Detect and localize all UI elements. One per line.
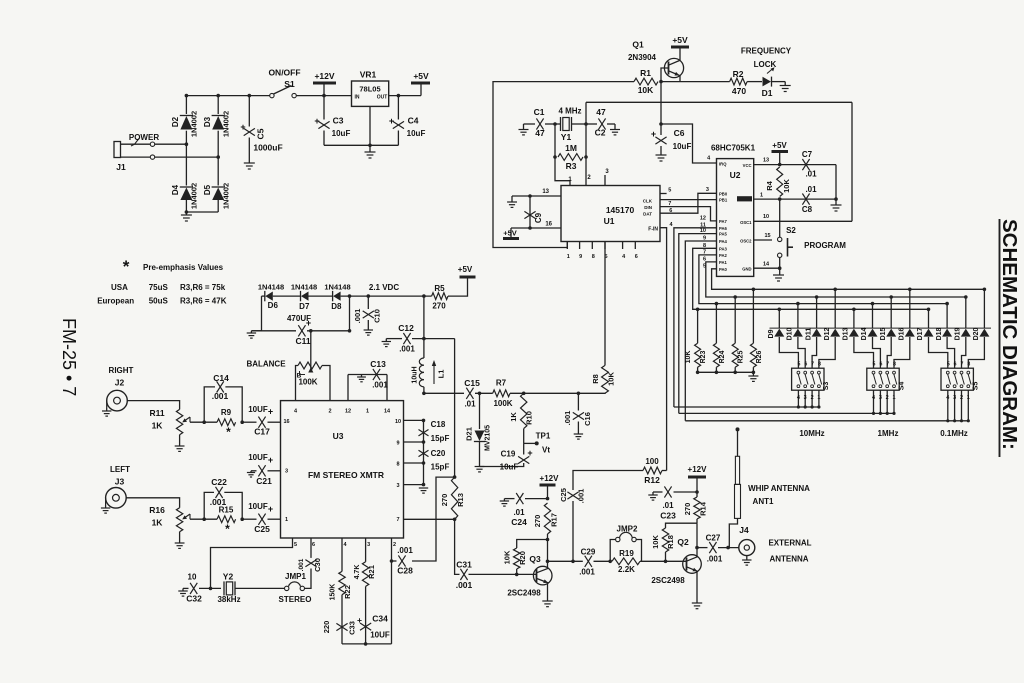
svg-text:C5: C5 xyxy=(256,128,266,139)
svg-text:PA6: PA6 xyxy=(719,226,728,231)
svg-text:1MHz: 1MHz xyxy=(878,429,899,438)
svg-text:C17: C17 xyxy=(254,427,270,437)
wire PA0 row line xyxy=(712,269,985,290)
svg-text:VR1: VR1 xyxy=(360,70,377,80)
svg-text:LOCK: LOCK xyxy=(754,60,777,69)
svg-text:.01: .01 xyxy=(513,508,525,517)
svg-text:+: + xyxy=(389,116,394,126)
DIP switch S4 xyxy=(867,361,906,416)
wire Q1 base xyxy=(661,68,669,82)
svg-text:10MHz: 10MHz xyxy=(799,429,824,438)
capacitor C34 10UF xyxy=(357,614,390,640)
svg-text:D18: D18 xyxy=(936,327,943,340)
svg-text:3: 3 xyxy=(804,395,807,401)
svg-text:R12: R12 xyxy=(644,475,660,485)
svg-text:14: 14 xyxy=(384,409,391,415)
svg-text:0.1MHz: 0.1MHz xyxy=(940,429,968,438)
svg-text:1K: 1K xyxy=(152,421,164,431)
oscillator cap column xyxy=(422,419,426,487)
svg-text:R17: R17 xyxy=(550,513,559,527)
svg-text:7: 7 xyxy=(811,362,814,368)
switch S1 ON/OFF xyxy=(268,68,300,98)
U2 VCC wire pin13 xyxy=(754,158,780,165)
svg-text:PA1: PA1 xyxy=(719,260,728,265)
svg-text:.01: .01 xyxy=(805,185,817,194)
ground R11 xyxy=(175,435,185,452)
svg-text:C10: C10 xyxy=(373,309,382,323)
svg-text:3: 3 xyxy=(285,468,288,474)
crystal Y2 38kHz xyxy=(217,572,284,605)
node C22 right xyxy=(240,517,244,521)
+5V supply at Q1 xyxy=(671,35,689,61)
svg-text:.001: .001 xyxy=(353,309,362,324)
svg-text:10K: 10K xyxy=(782,179,791,193)
U3 right pin3 wire xyxy=(404,484,424,486)
svg-text:.01: .01 xyxy=(805,170,817,179)
svg-text:16: 16 xyxy=(283,419,289,425)
svg-text:R14: R14 xyxy=(699,501,708,516)
U3 right pin8 wire xyxy=(404,462,424,464)
wire Y1 to OSC line xyxy=(585,102,587,124)
capacitor C16 .001 xyxy=(563,393,592,434)
wire D12 cathode to row xyxy=(824,288,837,341)
diode D15 xyxy=(886,329,896,337)
svg-text:C20: C20 xyxy=(431,449,446,458)
wire OSC1 riser xyxy=(851,102,853,221)
svg-text:C13: C13 xyxy=(370,359,386,369)
svg-text:PA7: PA7 xyxy=(719,219,728,224)
wire PA2 row line xyxy=(699,255,947,304)
svg-text:38kHz: 38kHz xyxy=(217,595,240,604)
diode D17 xyxy=(924,329,934,337)
svg-text:R7: R7 xyxy=(496,379,507,388)
svg-text:10UF: 10UF xyxy=(370,631,390,640)
svg-text:8: 8 xyxy=(818,362,821,368)
svg-text:U3: U3 xyxy=(333,431,344,441)
wire D15 cathode to row xyxy=(880,295,893,340)
svg-text:100: 100 xyxy=(645,457,659,466)
svg-text:D14: D14 xyxy=(861,327,868,340)
wire PA3 row line xyxy=(693,248,929,309)
node R18 xyxy=(664,560,668,564)
svg-text:1N4002: 1N4002 xyxy=(190,183,199,209)
ground C1 xyxy=(519,124,529,135)
svg-text:U1: U1 xyxy=(604,216,615,226)
diode row cathode line xyxy=(770,327,992,329)
svg-text:ON/OFF: ON/OFF xyxy=(268,68,300,78)
capacitor C14 .001 xyxy=(204,373,242,422)
+5V supply at U2 xyxy=(772,141,789,166)
resistor R26 10K xyxy=(750,288,763,375)
EXTERNAL ANTENNA label xyxy=(768,539,811,564)
ground J4 xyxy=(742,560,751,565)
svg-text:4.7K: 4.7K xyxy=(354,565,361,580)
wire Q1 base to C6 node xyxy=(660,82,662,124)
svg-text:R26: R26 xyxy=(756,350,763,363)
ground C12 xyxy=(382,339,391,347)
crystal Y1 4MHz xyxy=(555,107,586,143)
svg-text:ANT1: ANT1 xyxy=(753,497,774,506)
capacitor C25 10UF xyxy=(242,502,280,534)
capacitor C17 10UF xyxy=(242,405,280,437)
wire R3 to U1 pin1 xyxy=(555,157,570,186)
svg-text:European: European xyxy=(97,297,134,306)
wire D17 cathode to row xyxy=(917,308,930,341)
wire D9 cathode to row xyxy=(768,308,781,339)
svg-text:F-IN: F-IN xyxy=(648,227,658,233)
svg-text:R25: R25 xyxy=(738,350,745,363)
svg-text:5: 5 xyxy=(294,542,297,548)
wire U3 pin7 out xyxy=(404,518,455,520)
svg-text:R19: R19 xyxy=(619,549,634,558)
node L1 top xyxy=(422,337,426,341)
svg-text:3: 3 xyxy=(706,187,709,193)
node J1 tip junction xyxy=(185,142,189,146)
svg-text:+12V: +12V xyxy=(688,465,708,474)
resistor R9 xyxy=(217,408,236,439)
svg-text:Y1: Y1 xyxy=(561,132,572,142)
wire PA6 scan line xyxy=(674,228,717,407)
node J1 ring junction xyxy=(216,155,220,159)
diode D5 xyxy=(203,183,231,209)
wire OSC top line xyxy=(586,101,852,103)
node C14 left xyxy=(202,420,206,424)
svg-text:J1: J1 xyxy=(116,162,126,172)
ground C21 xyxy=(247,471,255,477)
capacitor C6 10uF xyxy=(651,124,692,155)
DIP switch S5 xyxy=(941,361,980,423)
U3 right pin10 wire xyxy=(404,419,424,421)
wire C6 node to U2 IRQ xyxy=(661,124,717,163)
ground R26 rail xyxy=(748,372,758,381)
svg-text:EXTERNAL: EXTERNAL xyxy=(768,539,811,548)
svg-text:.001: .001 xyxy=(397,546,413,555)
node C14 right xyxy=(240,420,244,424)
svg-text:PA0: PA0 xyxy=(719,267,728,272)
capacitor C19 10uF xyxy=(480,443,533,471)
SCHEMATIC DIAGRAM title xyxy=(998,219,1021,457)
resistor R14 270 xyxy=(683,497,708,523)
svg-text:+: + xyxy=(357,615,362,625)
svg-text:C2: C2 xyxy=(595,128,606,138)
svg-text:7: 7 xyxy=(961,362,964,368)
whip antenna ANT1 xyxy=(729,427,740,547)
svg-text:+: + xyxy=(314,116,319,126)
svg-text:CLK: CLK xyxy=(643,199,653,204)
svg-text:1: 1 xyxy=(567,254,570,260)
svg-text:D13: D13 xyxy=(843,327,850,340)
wire C1 ground leg xyxy=(524,123,536,125)
svg-text:145170: 145170 xyxy=(606,205,635,215)
svg-text:1: 1 xyxy=(967,395,970,401)
wire scan bus S4 xyxy=(679,412,894,414)
resistor R15 xyxy=(217,506,236,537)
svg-text:5: 5 xyxy=(797,362,800,368)
wire D16 cathode to row xyxy=(899,288,912,341)
wire bias drop xyxy=(349,296,351,331)
svg-text:C25: C25 xyxy=(559,488,568,502)
svg-text:75uS: 75uS xyxy=(149,283,169,292)
svg-text:8: 8 xyxy=(396,462,399,468)
svg-text:C15: C15 xyxy=(464,378,480,388)
potentiometer R16 1K xyxy=(149,505,190,532)
bridge bottom rail wire xyxy=(186,211,218,213)
svg-text:3: 3 xyxy=(367,542,370,548)
svg-text:.001: .001 xyxy=(399,345,415,354)
svg-text:C24: C24 xyxy=(511,517,527,527)
svg-text:1N4148: 1N4148 xyxy=(291,283,317,292)
svg-text:D1: D1 xyxy=(762,88,773,98)
svg-text:C14: C14 xyxy=(213,373,229,383)
ground C6 xyxy=(656,155,667,161)
svg-text:+5V: +5V xyxy=(413,71,429,81)
wire D20 cathode to row xyxy=(973,288,986,341)
svg-text:JMP2: JMP2 xyxy=(617,525,638,534)
ground C13 xyxy=(357,375,366,382)
diode D19 xyxy=(961,329,971,337)
wire scan bus S3 xyxy=(674,406,819,408)
svg-text:D17: D17 xyxy=(917,327,924,340)
varactor D21 MV2105 xyxy=(465,393,492,463)
svg-text:D7: D7 xyxy=(299,302,310,311)
svg-text:1: 1 xyxy=(285,517,288,523)
resistor R18 10K xyxy=(651,523,697,561)
svg-text:+: + xyxy=(651,129,656,139)
svg-text:JMP1: JMP1 xyxy=(285,572,306,581)
resistor R25 10K xyxy=(732,295,745,374)
diode D3 xyxy=(203,111,231,137)
svg-text:Q2: Q2 xyxy=(677,537,689,547)
capacitor C11 470UF xyxy=(251,314,349,346)
wire Q3 collector xyxy=(546,540,583,569)
svg-text:PA2: PA2 xyxy=(719,253,728,258)
svg-text:9: 9 xyxy=(396,441,399,447)
ground C5 xyxy=(244,163,255,169)
diode D4 xyxy=(171,183,199,209)
wire R11 wiper to R9 xyxy=(190,421,217,423)
IC U1 145170 xyxy=(561,186,660,242)
svg-text:VCC: VCC xyxy=(743,163,752,168)
svg-text:16: 16 xyxy=(545,222,552,228)
wire C7 C8 to ground xyxy=(834,165,838,205)
pre-emphasis note xyxy=(97,257,226,306)
svg-text:FM-25 • 7: FM-25 • 7 xyxy=(59,318,79,396)
svg-text:RIGHT: RIGHT xyxy=(109,366,134,375)
node R20 base xyxy=(515,573,519,577)
svg-text:R21: R21 xyxy=(367,565,376,579)
svg-text:PROGRAM: PROGRAM xyxy=(804,241,846,250)
svg-text:S5: S5 xyxy=(973,382,980,391)
svg-text:.001: .001 xyxy=(372,381,388,390)
svg-text:R22: R22 xyxy=(343,585,352,599)
svg-text:270: 270 xyxy=(683,503,692,516)
svg-text:C33: C33 xyxy=(348,621,357,635)
diode D7 xyxy=(299,291,332,311)
node D21 top xyxy=(478,392,482,396)
potentiometer R6 100K xyxy=(296,362,331,401)
wire D1 to ground xyxy=(772,81,786,83)
svg-text:POWER: POWER xyxy=(129,133,159,142)
svg-text:R4: R4 xyxy=(765,180,774,190)
svg-text:10uH: 10uH xyxy=(412,366,419,383)
svg-text:1N4148: 1N4148 xyxy=(258,283,284,292)
svg-text:68HC705K1: 68HC705K1 xyxy=(711,144,756,153)
svg-text:Y2: Y2 xyxy=(223,572,234,582)
wire regulator ground rail xyxy=(324,144,398,146)
svg-text:.001: .001 xyxy=(577,489,586,504)
svg-text:13: 13 xyxy=(542,189,549,195)
resistor R12 100 xyxy=(643,457,667,485)
ground J3 xyxy=(101,505,110,513)
node R10 top xyxy=(522,392,526,396)
svg-text:150K: 150K xyxy=(330,584,337,601)
capacitor C10 .001 xyxy=(353,294,382,330)
svg-text:Q3: Q3 xyxy=(529,554,541,564)
svg-text:S4: S4 xyxy=(898,382,905,391)
svg-text:D3: D3 xyxy=(203,116,212,127)
wire tank line xyxy=(424,392,464,394)
svg-text:.01: .01 xyxy=(464,400,476,409)
resistor R2 470 xyxy=(730,69,748,96)
svg-text:C6: C6 xyxy=(674,128,685,138)
svg-text:D20: D20 xyxy=(973,327,980,340)
capacitor C32 10 xyxy=(183,573,221,604)
capacitor C4 10uF xyxy=(389,94,426,146)
resistor R20 10K xyxy=(503,540,548,575)
svg-text:10UF: 10UF xyxy=(248,502,268,511)
wire U1 DIN to U2 PB1 xyxy=(660,200,717,207)
capacitor C29 .001 xyxy=(579,548,610,577)
+12V supply at Q2 xyxy=(688,465,708,497)
node Y1 right xyxy=(584,122,588,126)
node C25b tap xyxy=(571,560,575,564)
wire 2.1VDC line xyxy=(368,295,431,297)
wire D10 cathode to row xyxy=(787,302,800,341)
svg-text:J3: J3 xyxy=(115,477,125,487)
svg-text:C21: C21 xyxy=(256,476,272,486)
wire D18 cathode to row xyxy=(936,302,949,341)
U2 OSC1 wire pin10 xyxy=(754,214,852,221)
svg-text:R16: R16 xyxy=(149,505,165,515)
svg-text:10K: 10K xyxy=(503,550,512,564)
svg-text:47: 47 xyxy=(535,128,545,138)
capacitor C21 10UF xyxy=(248,453,280,486)
svg-text:15: 15 xyxy=(764,233,770,239)
svg-text:R9: R9 xyxy=(221,408,232,417)
diode D13 xyxy=(849,329,859,337)
U2 pin number labels left xyxy=(700,156,711,270)
wire VR1 out to +5V xyxy=(389,95,421,97)
svg-text:2: 2 xyxy=(328,409,331,415)
+5V supply at U1 xyxy=(503,228,519,239)
diode D11 xyxy=(812,329,822,337)
svg-text:+: + xyxy=(268,504,273,514)
U1 pin16 wire xyxy=(511,222,561,229)
wire S1 to VR1 xyxy=(296,95,351,97)
IC U3 FM STEREO XMTR xyxy=(281,401,404,538)
ground C23 xyxy=(648,492,657,500)
svg-text:C18: C18 xyxy=(431,420,446,429)
svg-text:R3,R6 = 47K: R3,R6 = 47K xyxy=(180,297,227,306)
svg-text:R18: R18 xyxy=(666,535,675,549)
ground C11 xyxy=(247,331,256,338)
svg-text:S1: S1 xyxy=(284,79,295,89)
svg-text:1: 1 xyxy=(760,193,763,199)
diode D6 xyxy=(265,291,301,310)
svg-text:6: 6 xyxy=(312,542,315,548)
svg-text:C11: C11 xyxy=(295,336,310,346)
svg-text:47: 47 xyxy=(596,107,606,117)
capacitor C3 10uF xyxy=(314,96,350,146)
svg-text:R24: R24 xyxy=(719,350,726,363)
svg-text:10K: 10K xyxy=(685,351,692,364)
svg-text:R5: R5 xyxy=(434,284,445,293)
U2 OSC2 stub pin15 xyxy=(754,233,772,240)
svg-text:R1: R1 xyxy=(640,68,651,78)
diode bias string wire xyxy=(251,296,261,331)
wire U3 pin2 column down xyxy=(390,538,394,644)
wires diode group to S5 pins xyxy=(929,337,985,361)
diode D20 xyxy=(979,329,989,337)
wire scan bus S5 xyxy=(685,420,968,422)
node D8 bias xyxy=(348,294,352,298)
capacitor C28 .001 xyxy=(392,546,413,576)
svg-text:5: 5 xyxy=(873,362,876,368)
diode D10 xyxy=(793,329,803,337)
wire PA4 scan line xyxy=(685,241,716,421)
svg-text:*: * xyxy=(123,257,130,276)
svg-text:+5V: +5V xyxy=(672,35,688,45)
capacitor C33 220 xyxy=(322,621,357,635)
svg-text:10K: 10K xyxy=(651,535,660,549)
svg-text:4 MHz: 4 MHz xyxy=(558,107,581,116)
diode D14 xyxy=(868,329,878,337)
svg-text:3: 3 xyxy=(396,483,399,489)
ground osc column xyxy=(419,488,428,493)
wire Q2 collector column xyxy=(695,523,699,557)
svg-text:+5V: +5V xyxy=(772,141,787,150)
svg-text:D10: D10 xyxy=(787,327,794,340)
bridge top rail wire xyxy=(186,95,271,97)
capacitor C15 .01 xyxy=(464,378,492,409)
capacitor C12 .001 xyxy=(386,323,454,354)
svg-text:2SC2498: 2SC2498 xyxy=(507,589,541,598)
svg-text:D4: D4 xyxy=(171,184,180,195)
svg-text:5: 5 xyxy=(947,362,950,368)
svg-text:C4: C4 xyxy=(408,116,419,126)
ground J2 xyxy=(102,408,111,416)
svg-text:R10: R10 xyxy=(525,411,534,425)
resistor R8 10K xyxy=(591,365,616,393)
U3 pin numbers xyxy=(283,409,401,549)
svg-text:2N3904: 2N3904 xyxy=(628,53,657,62)
svg-text:C23: C23 xyxy=(660,511,676,521)
svg-text:8: 8 xyxy=(592,254,595,260)
svg-text:1N4002: 1N4002 xyxy=(190,111,199,137)
svg-text:.01: .01 xyxy=(662,501,674,510)
svg-text:R3: R3 xyxy=(566,161,577,171)
wire R16 wiper to R15 xyxy=(190,518,217,520)
wire Y1 to U1 pin2 xyxy=(585,157,587,186)
svg-text:BALANCE: BALANCE xyxy=(246,360,286,369)
svg-text:S3: S3 xyxy=(823,382,830,391)
wire R19 to Q2 base xyxy=(640,560,687,562)
svg-text:2.1 VDC: 2.1 VDC xyxy=(369,283,399,292)
ground U2 xyxy=(773,268,784,281)
ground C24 xyxy=(500,499,509,507)
svg-text:9: 9 xyxy=(579,254,582,260)
svg-text:C25: C25 xyxy=(254,524,270,534)
